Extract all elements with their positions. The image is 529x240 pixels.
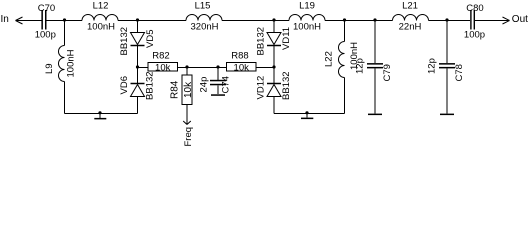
svg-text:100p: 100p	[464, 30, 485, 41]
wire L12 to L15	[118, 20, 186, 22]
wire R84 to Freq arrow	[186, 105, 188, 125]
wire bottom-left rail	[65, 113, 138, 115]
wire C78 to ground	[446, 68, 448, 113]
wire C70 to L12	[47, 20, 83, 22]
wire L19 to L21	[325, 20, 393, 22]
svg-text:L12: L12	[93, 1, 109, 12]
In arrow	[16, 17, 23, 24]
svg-text:100nH: 100nH	[293, 22, 321, 33]
resistor R88	[227, 63, 257, 72]
wire bottom-right rail	[274, 113, 345, 115]
wire top to C78	[446, 21, 448, 64]
node junction C74 tap	[216, 65, 219, 68]
wire VD5 to VD6	[137, 46, 139, 84]
inductor L19	[289, 15, 325, 21]
wire top to C79	[374, 21, 376, 64]
varicap diode VD11 BB132	[267, 33, 281, 45]
ground C78	[440, 114, 454, 116]
wire top to VD11	[273, 21, 275, 33]
svg-text:10k: 10k	[183, 81, 194, 98]
node junction R84 tap	[185, 65, 188, 68]
Out arrow	[503, 17, 510, 24]
svg-text:100p: 100p	[35, 30, 56, 41]
varicap diode VD5 BB132	[131, 33, 145, 45]
inductor L22	[339, 42, 345, 78]
node junction L22 top	[343, 18, 346, 21]
wire VD11 to VD12	[273, 46, 275, 84]
wire top to VD5	[137, 21, 139, 33]
svg-text:Out: Out	[512, 14, 528, 25]
svg-text:R82: R82	[152, 51, 169, 62]
svg-text:C74: C74	[221, 76, 232, 93]
inductor L15	[186, 15, 222, 21]
wire string to R82	[138, 67, 149, 69]
svg-text:24p: 24p	[198, 77, 209, 93]
svg-text:L9: L9	[44, 63, 55, 74]
wire R88 to right string	[256, 67, 274, 69]
svg-text:L22: L22	[324, 51, 335, 67]
svg-text:L21: L21	[402, 1, 418, 12]
varicap diode VD6 BB132	[131, 83, 145, 85]
svg-text:VD12: VD12	[256, 76, 267, 100]
capacitor C78	[439, 63, 455, 65]
svg-text:100nH: 100nH	[66, 49, 77, 77]
wire L22 to bottom rail	[344, 78, 346, 114]
Freq arrow	[183, 121, 191, 125]
svg-text:VD11: VD11	[281, 27, 292, 50]
svg-text:320nH: 320nH	[191, 22, 219, 33]
inductor L21	[393, 15, 429, 21]
ground left	[98, 111, 101, 114]
svg-text:VD6: VD6	[119, 76, 130, 94]
svg-text:12p: 12p	[355, 58, 366, 74]
node junction C70/L9	[63, 18, 66, 21]
wire C80 to Out arrow	[475, 20, 510, 22]
node junction VD11 top	[272, 18, 275, 21]
wire VD12 to bottom rail	[273, 97, 275, 114]
svg-text:100nH: 100nH	[87, 22, 115, 33]
node junction mid right string	[272, 65, 275, 68]
svg-text:BB132: BB132	[145, 71, 156, 100]
wire down to L9	[64, 21, 66, 46]
svg-text:10k: 10k	[234, 63, 250, 74]
wire top to L22	[344, 21, 346, 42]
svg-text:C70: C70	[38, 3, 55, 14]
wire L21 to C80	[429, 20, 471, 22]
wire L15 to L19	[222, 20, 289, 22]
capacitor C70	[41, 10, 43, 30]
wire In-arrow to C70	[16, 20, 42, 22]
svg-text:C79: C79	[382, 64, 393, 81]
svg-text:L15: L15	[195, 1, 211, 12]
varicap diode VD12 BB132	[267, 83, 281, 85]
svg-text:L19: L19	[299, 1, 315, 12]
svg-text:In: In	[1, 14, 9, 25]
inductor L12	[82, 15, 118, 21]
svg-text:BB132: BB132	[256, 27, 267, 56]
svg-text:VD5: VD5	[145, 30, 156, 48]
svg-text:R88: R88	[231, 51, 248, 62]
ground C79	[368, 114, 382, 116]
wire R82 to R88	[178, 67, 227, 69]
svg-text:C80: C80	[466, 3, 483, 14]
wire C74 to ground	[217, 85, 219, 94]
svg-text:Freq: Freq	[183, 127, 194, 147]
ground right	[305, 111, 308, 114]
ground C74	[211, 94, 225, 96]
wire VD6 to bottom rail	[137, 97, 139, 114]
svg-text:C78: C78	[454, 64, 465, 81]
node junction mid left string	[136, 65, 139, 68]
svg-text:22nH: 22nH	[399, 22, 422, 33]
svg-text:BB132: BB132	[119, 27, 130, 56]
resistor R84	[182, 75, 192, 105]
node junction VD5 top	[136, 18, 139, 21]
wire C79 to ground	[374, 68, 376, 113]
capacitor C79	[367, 63, 383, 65]
node junction C79 top	[373, 18, 376, 21]
node junction C78 top	[445, 18, 448, 21]
capacitor C80	[470, 10, 471, 30]
wire mid to R84	[186, 68, 188, 76]
svg-text:10k: 10k	[155, 63, 171, 74]
inductor L9	[59, 46, 65, 82]
capacitor C74	[210, 80, 226, 82]
svg-text:12p: 12p	[427, 58, 438, 74]
svg-text:BB132: BB132	[281, 71, 292, 100]
resistor R82	[148, 63, 178, 72]
svg-text:R84: R84	[170, 80, 181, 99]
wire L9 to bottom rail	[64, 82, 66, 114]
wire mid to C74	[217, 68, 219, 80]
